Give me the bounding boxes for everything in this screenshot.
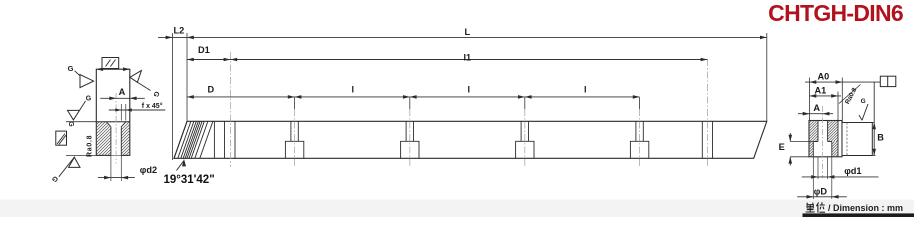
dimension phi d2 — [110, 155, 112, 181]
svg-text:19°31'42": 19°31'42" — [164, 174, 215, 186]
svg-text:φD: φD — [814, 186, 828, 196]
extension line left top corner — [186, 33, 188, 121]
left joint hole — [224, 121, 226, 158]
svg-text:L: L — [465, 27, 471, 37]
surface symbol upper left — [80, 75, 94, 88]
svg-text:l: l — [468, 85, 471, 95]
parallelism box left side — [56, 131, 67, 145]
left view hole centerline — [115, 93, 117, 164]
svg-text:B: B — [877, 133, 884, 143]
svg-text:CHTGH-DIN6: CHTGH-DIN6 — [768, 0, 903, 26]
svg-text:G: G — [86, 96, 92, 103]
left joint hole centerline — [229, 52, 231, 167]
left view body — [96, 69, 130, 155]
svg-text:l: l — [352, 85, 355, 95]
extension line bottom edge left — [66, 154, 96, 156]
svg-text:l: l — [584, 85, 587, 95]
caption unit glyph 2 — [816, 202, 825, 212]
dimension phi d1 — [817, 157, 819, 179]
svg-text:φd2: φd2 — [140, 165, 157, 175]
left view hole walls — [110, 127, 112, 156]
svg-text:E: E — [779, 142, 785, 152]
left view hole opening — [111, 126, 121, 156]
counterbore hole 4 centerline — [639, 97, 641, 109]
dimension L — [187, 36, 767, 38]
dimension phi D — [812, 157, 814, 199]
counterbore hole 4 — [630, 121, 648, 158]
dimension l pitch 3 — [525, 96, 640, 98]
right joint hole — [701, 121, 703, 158]
svg-text:D1: D1 — [198, 45, 210, 55]
svg-text:A1: A1 — [815, 86, 827, 96]
vertical line after teeth — [213, 121, 215, 158]
svg-text:G: G — [67, 121, 74, 127]
right joint hole centerline — [706, 59, 708, 167]
counterbore hole 1 — [285, 121, 303, 158]
dimension A1 — [810, 95, 842, 97]
left view top edge arrows — [96, 67, 103, 71]
svg-text:G: G — [68, 64, 74, 73]
svg-text:/ Dimension : mm: / Dimension : mm — [828, 203, 903, 213]
right view sectioned body — [809, 121, 842, 157]
counterbore hole 3 — [516, 121, 534, 158]
surface symbol mid left — [68, 110, 80, 120]
dimension D1 — [187, 59, 230, 61]
svg-text:l1: l1 — [464, 52, 472, 62]
surface symbol right side — [130, 71, 142, 83]
bottom page band — [0, 200, 914, 218]
surface mark G right view — [859, 115, 862, 120]
Ra0.8 leader right view — [839, 85, 861, 104]
tolerance frame box — [880, 76, 896, 86]
dimension E — [790, 141, 818, 143]
right view hatch — [809, 121, 838, 157]
surface symbol bottom left — [69, 157, 80, 167]
right view counterbore step — [813, 141, 818, 143]
counterbore hole 2 centerline — [409, 97, 411, 109]
tooth angle leader — [182, 159, 186, 167]
counterbore hole 2 — [401, 121, 419, 158]
right view hole walls — [817, 121, 819, 142]
helical teeth hatch at left end — [174, 121, 213, 158]
bottom-right black bar — [803, 213, 914, 217]
right view inner boundary line — [837, 121, 839, 157]
right view hole centerline — [822, 106, 824, 178]
dimension L2 — [158, 36, 187, 38]
counterbore hole 1 centerline — [294, 97, 296, 109]
svg-text:φd1: φd1 — [844, 166, 861, 176]
caption unit glyph 1 — [806, 203, 815, 213]
left view section hatch — [96, 122, 130, 156]
svg-text:A: A — [813, 103, 820, 113]
extension line hatch top left — [66, 121, 96, 123]
parallelism box above left view — [102, 58, 119, 69]
svg-text:A: A — [119, 87, 126, 97]
svg-text:D: D — [208, 85, 215, 95]
left view hatch top line — [96, 121, 130, 123]
rack plan view outline — [174, 121, 767, 158]
dimension A left view — [100, 97, 145, 99]
svg-text:Ra0.8: Ra0.8 — [87, 135, 94, 157]
extension lines right view top dims — [809, 78, 811, 121]
extension line right top corner — [766, 33, 768, 121]
counterbore hole 3 centerline — [524, 97, 526, 109]
right view plain part — [842, 123, 872, 156]
dimension A0 — [805, 81, 880, 83]
svg-text:G: G — [861, 98, 866, 105]
extension B bottom — [872, 155, 875, 157]
right view hidden line — [846, 123, 848, 156]
dimension l pitch 2 — [410, 96, 525, 98]
dimension l pitch 1 — [295, 96, 410, 98]
svg-text:A0: A0 — [818, 71, 830, 81]
dimension l1 — [230, 59, 707, 61]
extension line left bottom corner — [171, 33, 173, 160]
dimension D — [187, 96, 295, 98]
left view hole chamfers — [106, 122, 111, 127]
svg-text:L2: L2 — [174, 25, 185, 35]
svg-text:f x 45°: f x 45° — [142, 102, 163, 110]
dimension f x 45 left view — [120, 104, 122, 121]
dimension B — [873, 82, 875, 155]
dimension A right view — [798, 113, 833, 115]
